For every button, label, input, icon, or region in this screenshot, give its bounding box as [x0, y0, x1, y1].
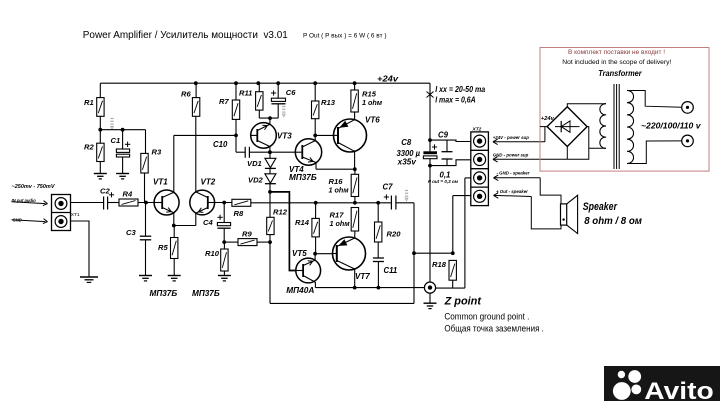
svg-text:P Out ( P вых ) = 6 W ( 6 вт ): P Out ( P вых ) = 6 W ( 6 вт ) — [303, 33, 387, 40]
wire R14 to VT7 base node — [315, 237, 317, 254]
svg-text:VT1: VT1 — [153, 178, 168, 187]
wire bridge bottom gnd — [566, 147, 568, 160]
resistor R13 — [312, 101, 319, 119]
capacitor C6 — [271, 83, 286, 118]
svg-text:C6: C6 — [286, 88, 296, 97]
wire R7 to VT3 base node — [235, 119, 237, 152]
svg-text:C3: C3 — [126, 228, 136, 237]
svg-text:C9: C9 — [438, 131, 449, 140]
svg-text:0,1: 0,1 — [440, 171, 451, 180]
wire node to R16 — [354, 169, 356, 174]
node dot C11 bottom — [377, 286, 381, 290]
svg-text:C7: C7 — [383, 183, 394, 192]
node wire R1/R2/C1/R3 — [100, 130, 145, 154]
wire C8 bottom to XT2 gnd pin — [430, 160, 471, 166]
wire VT6 collector down — [354, 151, 356, 169]
transistor VT2 — [190, 190, 215, 215]
capacitor C4 — [217, 203, 230, 243]
ground under C1 — [116, 174, 129, 179]
resistor R4 — [119, 199, 138, 206]
node dot C4/R9/R10 — [222, 240, 226, 244]
wire XT1 to C2 — [71, 202, 104, 204]
wire secondary top to plug — [627, 91, 682, 108]
wire VD2 node to R12 — [269, 192, 271, 217]
capacitor C3 — [140, 203, 151, 276]
svg-text:I xx = 20-50 ma: I xx = 20-50 ma — [435, 85, 485, 94]
svg-text:C10: C10 — [213, 140, 228, 149]
svg-text:R3: R3 — [152, 148, 162, 157]
svg-text:Общая точка заземления .: Общая точка заземления . — [444, 324, 544, 334]
node dot R18 top — [451, 251, 455, 255]
diode VD1 — [265, 152, 276, 174]
junction dots on +24v rail — [194, 81, 357, 85]
dashed mark right of C7 — [405, 191, 408, 201]
resistor R20 — [375, 222, 382, 242]
svg-text:R4: R4 — [123, 190, 133, 199]
wire R9 to R12 node — [257, 241, 270, 243]
capacitor C11 — [373, 242, 384, 288]
node dot R14 — [314, 201, 318, 205]
node dot R20 — [376, 201, 380, 205]
capacitor C8 — [423, 144, 437, 282]
svg-text:МП37Б: МП37Б — [150, 289, 178, 298]
transistor VT4 — [295, 139, 321, 165]
svg-text:Avito: Avito — [644, 378, 713, 405]
svg-text:C11: C11 — [384, 266, 398, 275]
wire R18 bottom to Z point — [436, 280, 465, 288]
svg-text:GND - power sup: GND - power sup — [493, 152, 529, 157]
resistor R5 — [171, 238, 178, 259]
wire output node to R18 node — [414, 252, 453, 254]
ground bus wire — [315, 287, 424, 289]
resistor R7 — [232, 100, 239, 119]
ground under R5 — [168, 276, 181, 281]
svg-text:VT3: VT3 — [277, 132, 292, 141]
transformer secondary coil — [627, 90, 634, 163]
transformer delivery box — [540, 48, 709, 172]
wire R1 to node — [99, 116, 101, 129]
resistor R17 — [351, 208, 358, 232]
resistor R1 — [97, 98, 104, 117]
node dot C8 top — [428, 138, 432, 142]
gnd arrow — [12, 219, 48, 224]
ground under R2 — [94, 174, 107, 179]
wire Z point to ground — [429, 293, 431, 303]
resistor R2 — [97, 143, 104, 161]
svg-text:VD1: VD1 — [247, 159, 262, 168]
node dot VD2 bottom — [268, 190, 272, 194]
svg-text:1 ohм: 1 ohм — [329, 186, 350, 195]
mains plug contact 1 — [682, 102, 694, 114]
svg-text:8 ohm / 8 ом: 8 ohm / 8 ом — [584, 216, 642, 227]
connector XT2 — [471, 132, 489, 206]
node dot VT1 base — [144, 201, 148, 205]
+24v supply rail wire — [100, 82, 430, 84]
node dot C8 bottom — [428, 164, 432, 168]
wire C2 to R4 — [108, 202, 119, 204]
resistor R14 — [312, 218, 319, 237]
svg-text:МП40А: МП40А — [286, 285, 314, 295]
svg-text:R11: R11 — [239, 89, 252, 98]
resistor R6 — [192, 98, 199, 117]
svg-text:Transformer: Transformer — [598, 68, 642, 78]
wire R5 to ground — [173, 259, 175, 276]
wire rail to R15 — [354, 83, 356, 90]
ground under Z point — [424, 303, 437, 308]
wire VT7 base — [315, 253, 332, 255]
wire VT4 emitter — [316, 163, 355, 170]
mains plug contact 2 — [682, 135, 694, 147]
svg-text:P out = 0,3 ом: P out = 0,3 ом — [428, 179, 459, 184]
arrow GND — [493, 157, 567, 163]
svg-text:R20: R20 — [387, 230, 402, 239]
label C8 — [397, 138, 421, 167]
svg-text:- GND - speaker: - GND - speaker — [497, 171, 530, 176]
svg-text:+ Out - speaker: + Out - speaker — [496, 189, 528, 194]
svg-text:VT2: VT2 — [201, 178, 216, 187]
wire rail to R6 — [195, 83, 197, 97]
node dot output — [412, 251, 416, 255]
node dot VT6 base — [313, 134, 317, 138]
wire R15 to VT6 emitter — [354, 112, 356, 120]
wire R6 to VT2 collector — [195, 116, 197, 192]
svg-text:x35v: x35v — [397, 157, 417, 166]
svg-text:+24v: +24v — [541, 116, 555, 122]
input audio arrow — [12, 201, 48, 206]
wire VT2 base to R8 node — [215, 202, 232, 204]
svg-text:R18: R18 — [432, 260, 447, 269]
node dot VT3 base — [234, 134, 238, 138]
wire VT6 base — [315, 134, 333, 136]
wire VT7 collector to ground bus — [354, 269, 356, 288]
transistor VT6 — [334, 119, 367, 152]
wire R12 to R9 node and feedback — [270, 235, 414, 304]
wire primary bottom — [589, 147, 606, 149]
wire C8 top to XT2 +24 pin — [430, 140, 471, 141]
wire R18 node to XT2 out pin — [453, 196, 471, 254]
resistor R8 — [232, 199, 251, 206]
svg-text:C8: C8 — [401, 138, 412, 147]
arrow +24V — [493, 127, 545, 145]
wire emitters to R5 — [173, 226, 175, 238]
svg-text:VT5: VT5 — [292, 249, 307, 258]
x mark on supply wire — [427, 92, 434, 98]
wire node to R2 — [99, 130, 101, 144]
svg-text:C1: C1 — [111, 136, 121, 145]
wire mid bus R8 to C7 — [251, 202, 392, 204]
wire R13 to VT6 base node — [314, 119, 316, 141]
resistor R11 — [256, 92, 263, 110]
wire VT1 collector up — [174, 135, 236, 192]
wire VD2 node to VT5 base — [270, 192, 296, 271]
wire rail to R1 — [99, 83, 101, 97]
wire VT5 emitter to ground bus — [314, 281, 316, 287]
svg-text:R5: R5 — [158, 243, 168, 252]
wire rail to R7 — [235, 83, 237, 100]
node dot R16 top — [353, 167, 357, 171]
diode VD2 — [265, 174, 276, 192]
wire R17 to VT7 emitter — [354, 231, 356, 238]
svg-text:R12: R12 — [273, 208, 288, 217]
resistor R16 — [351, 174, 358, 196]
wire C4 node to R9 — [224, 241, 238, 243]
wire VT5 collector up — [314, 254, 316, 261]
capacitor C10 — [236, 147, 270, 158]
wire VT3 collector down — [269, 147, 271, 153]
wire bridge left out — [540, 126, 547, 128]
transformer primary coil — [600, 104, 606, 149]
svg-text:+24V - power sup: +24V - power sup — [493, 135, 530, 140]
dashed mark under C6 — [282, 107, 285, 117]
svg-text:Speaker: Speaker — [583, 201, 618, 213]
node dot VD1/VT3/VT4 — [268, 150, 272, 154]
svg-text:1 ohм: 1 ohм — [362, 98, 383, 107]
capacitor C2 — [104, 192, 115, 209]
capacitor C9 — [442, 140, 453, 166]
transformer core — [614, 84, 619, 169]
wire R16 to mid bus — [354, 197, 356, 203]
svg-text:XT1: XT1 — [71, 212, 80, 218]
svg-text:R1: R1 — [84, 98, 94, 107]
ground under C3 — [139, 276, 152, 281]
node dot R2 — [98, 128, 102, 132]
wire XT2 speaker gnd pin down — [465, 178, 471, 288]
wire bridge top to primary — [567, 104, 606, 107]
svg-text:R13: R13 — [321, 98, 336, 107]
resistor R12 — [267, 217, 274, 234]
wire R3 to VT1 base node — [144, 173, 146, 203]
wire C7 to output node — [396, 203, 414, 304]
svg-text:R6: R6 — [181, 90, 191, 99]
svg-text:Common ground point .: Common ground point . — [444, 312, 529, 322]
node dot emitters — [172, 224, 176, 228]
ground under R10 — [218, 276, 231, 281]
wire mid bus to R14 — [315, 203, 317, 219]
capacitor C1 — [116, 130, 130, 174]
capacitor C7 — [384, 194, 396, 209]
svg-text:R10: R10 — [205, 249, 220, 258]
svg-text:МП37Б: МП37Б — [192, 289, 220, 298]
label R17 — [330, 211, 351, 229]
transistor VT5 — [296, 258, 321, 283]
svg-text:Z point: Z point — [444, 295, 483, 307]
wire rail to R13 — [314, 83, 316, 101]
resistor R3 — [141, 153, 148, 173]
label R16 — [329, 177, 350, 195]
arrow GND speaker wire — [494, 175, 562, 204]
wire R4 to VT1 base — [138, 202, 154, 204]
resistor R15 — [351, 90, 358, 112]
wire VT3 emitter up — [269, 118, 271, 124]
Z point node — [424, 282, 435, 293]
wire rail down to C8 — [429, 83, 431, 151]
svg-text:XT2: XT2 — [472, 127, 482, 133]
resistor R18 — [449, 260, 456, 280]
svg-text:VT6: VT6 — [365, 116, 380, 125]
arrow Out speaker wire — [494, 193, 562, 229]
wire XT1 gnd pin — [71, 221, 90, 277]
svg-text:~220/100/110 v: ~220/100/110 v — [641, 121, 702, 131]
svg-text:R2: R2 — [84, 143, 94, 152]
svg-text:+24v: +24v — [377, 74, 399, 84]
svg-text:~250mv - 750mV: ~250mv - 750mV — [12, 184, 56, 190]
svg-text:R7: R7 — [219, 97, 229, 106]
transistor VT7 — [333, 237, 366, 270]
svg-text:R8: R8 — [234, 209, 244, 218]
svg-text:C2: C2 — [100, 187, 110, 196]
ground under XT1 — [80, 277, 98, 282]
wire secondary bottom to plug — [627, 141, 682, 164]
svg-text:Not included in the scope of d: Not included in the scope of delivery! — [562, 59, 671, 66]
label R15 — [362, 90, 383, 108]
svg-text:C4: C4 — [203, 218, 213, 227]
svg-text:МП37Б: МП37Б — [289, 173, 317, 182]
wire gnd to right vertex — [567, 127, 589, 160]
node dot R16/R17 — [353, 201, 357, 205]
node dot C1 — [121, 128, 125, 132]
svg-text:1 ohм: 1 ohм — [330, 219, 351, 228]
transistor VT1 — [154, 190, 179, 215]
wire mid bus to R20 — [377, 203, 379, 222]
wire R2 to ground — [99, 162, 101, 174]
svg-text:R14: R14 — [295, 218, 310, 227]
wire VT2 emitter to VT1 emitter — [174, 213, 196, 225]
dashed polarity mark near R1 — [110, 119, 113, 130]
bridge rectifier — [547, 107, 587, 147]
svg-text:Power Amplifier / Усилитель мо: Power Amplifier / Усилитель мощности v3.… — [83, 30, 288, 41]
wire R11 to emitter node — [259, 110, 278, 118]
connector XT1 — [52, 195, 71, 231]
svg-text:VD2: VD2 — [248, 176, 264, 185]
wire node to VT4 base — [270, 151, 295, 153]
node dot R9/R12 — [268, 240, 272, 244]
resistor R10 — [221, 249, 228, 271]
wire rail to R11 — [258, 83, 260, 92]
svg-text:R9: R9 — [242, 230, 252, 239]
wire node to R10 — [223, 242, 225, 249]
title text — [83, 30, 387, 41]
wire VT1 emitter down — [173, 213, 175, 226]
transistor VT3 — [251, 123, 277, 149]
node dot VT2 base — [222, 201, 226, 205]
svg-text:I max = 0,6A: I max = 0,6A — [435, 95, 476, 104]
speaker symbol — [561, 195, 578, 233]
wire R10 to ground — [223, 271, 225, 275]
watermark bar — [604, 366, 720, 401]
svg-text:В комплект поставки не входит: В комплект поставки не входит ! — [568, 49, 665, 56]
node dot VT3 emitter — [268, 116, 272, 120]
svg-text:VT7: VT7 — [355, 272, 370, 281]
resistor R9 — [238, 239, 257, 246]
watermark logo circles — [613, 370, 641, 400]
node dot VT7 base — [313, 252, 317, 256]
node dot VT7 collector — [353, 286, 357, 290]
